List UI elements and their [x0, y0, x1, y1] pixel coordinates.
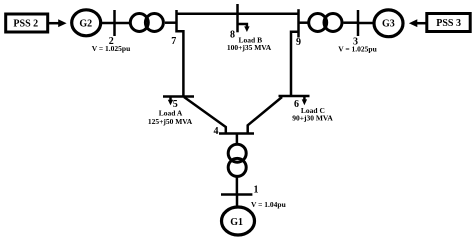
wire bus3 to G3 [358, 22, 375, 25]
svg-text:V = 1.04pu: V = 1.04pu [251, 200, 286, 209]
bus 2 [113, 10, 116, 36]
transformer T3 [309, 14, 342, 32]
bus 7 [175, 10, 178, 33]
bus 4 [219, 132, 254, 135]
svg-text:125+j50 MVA: 125+j50 MVA [148, 117, 193, 126]
svg-text:V = 1.025pu: V = 1.025pu [92, 44, 131, 53]
svg-text:G1: G1 [230, 217, 243, 228]
PSS 3 box [427, 14, 470, 32]
svg-text:PSS 2: PSS 2 [13, 18, 38, 29]
svg-text:100+j35 MVA: 100+j35 MVA [227, 43, 272, 52]
svg-text:8: 8 [230, 30, 235, 41]
wire G2 to T2 [101, 22, 131, 25]
bus 5 [163, 95, 194, 98]
wire bus1 to G1 [236, 195, 239, 208]
wire bus9 stub down to line 9-6 [291, 32, 299, 96]
bus 9 [297, 9, 300, 37]
generator G1 [222, 207, 255, 235]
svg-text:90+j30 MVA: 90+j30 MVA [292, 114, 333, 123]
svg-text:1: 1 [254, 185, 259, 196]
svg-text:V = 1.025pu: V = 1.025pu [338, 45, 377, 54]
wire bus7 stub down to line 7-5 [177, 31, 184, 96]
Load C arrow [302, 97, 307, 106]
wire T2 to bus 7 [165, 21, 177, 24]
PSS 2 box [6, 14, 48, 32]
wire bus4 to T1 [236, 134, 239, 145]
svg-text:PSS 3: PSS 3 [436, 18, 461, 29]
svg-text:6: 6 [294, 99, 299, 110]
Load B arrow [238, 24, 250, 32]
Load A arrow [168, 97, 173, 105]
wire T3 to bus 3 [344, 21, 359, 24]
svg-text:7: 7 [171, 36, 176, 47]
wire bus9 to T3 [299, 21, 309, 24]
bus 3 [357, 10, 360, 36]
bus 1 [221, 193, 252, 196]
svg-text:G2: G2 [79, 18, 92, 29]
arrow PSS2 to G2 [49, 19, 67, 27]
svg-text:9: 9 [296, 37, 301, 48]
arrow PSS3 to G3 [409, 19, 426, 27]
svg-text:4: 4 [214, 126, 219, 137]
transformer T1 [228, 144, 246, 176]
line bus5 to bus4 [184, 97, 226, 134]
generator G3 [374, 10, 403, 37]
svg-text:G3: G3 [382, 19, 395, 30]
wire T1 to bus 1 [236, 177, 239, 195]
generator G2 [72, 10, 101, 36]
line bus6 to bus4 [248, 97, 282, 134]
wire bus7 to bus9 (top line through bus 8) [177, 13, 299, 16]
bus 6 [279, 95, 310, 98]
bus 8 [236, 4, 239, 32]
transformer T2 [130, 14, 163, 32]
